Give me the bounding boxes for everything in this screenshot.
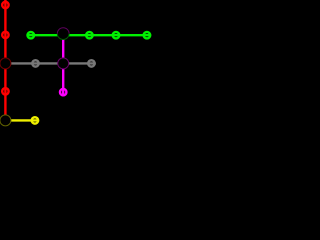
node GR4 green station end	[144, 32, 150, 38]
node J1 junction red/gray	[0, 58, 11, 69]
node G2 gray station end	[88, 60, 94, 66]
node R1 red station top	[2, 2, 8, 8]
wire: yellow line horizontal	[5, 119, 39, 121]
node G1 gray station	[32, 60, 38, 66]
node GR2 green station	[86, 32, 92, 38]
node J3 green lower arc	[57, 34, 69, 40]
node J4 junction red/yellow	[0, 115, 11, 126]
wire: green line horizontal	[26, 34, 151, 36]
wire: gray line horizontal	[5, 62, 95, 64]
node R3 red station	[2, 88, 8, 94]
wire: red line vertical	[4, 0, 6, 120]
node R2 red station	[2, 32, 8, 38]
node GR1 green station	[28, 32, 34, 38]
node GR3 green station	[113, 32, 119, 38]
node J2 junction magenta/gray	[58, 58, 69, 69]
node Y1 yellow station end	[32, 117, 38, 123]
node J3 junction green/magenta black disc	[57, 28, 69, 40]
wire: magenta line vertical	[62, 35, 64, 96]
node J3 magenta upper arc	[57, 28, 69, 34]
node M1 magenta station end	[60, 89, 66, 95]
